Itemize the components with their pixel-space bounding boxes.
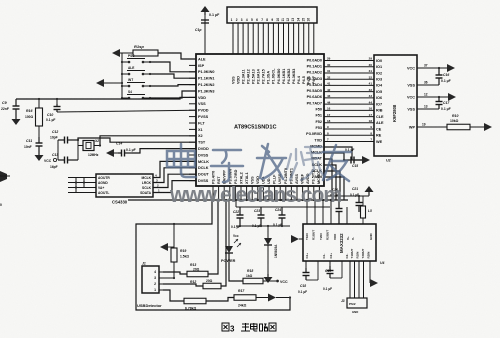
resistor R14 6.78k on J1 pin1 <box>163 290 184 301</box>
ground arrow left of R1sp <box>112 49 120 57</box>
ground below D1 <box>267 274 269 277</box>
capacitor C24 0.1uF <box>281 207 283 215</box>
connector J2 top header <box>227 7 317 23</box>
ground arrow right of C16 <box>447 64 455 72</box>
capacitor C22 0.1uF <box>239 207 241 215</box>
DAC U3 CS4330 <box>96 174 153 197</box>
ground arrow left rail <box>96 79 104 87</box>
wire top rail to U1 VDD <box>16 97 196 99</box>
resistor R13 20ohm on J1 pin4 <box>163 272 187 274</box>
capacitor C23 0.1uF <box>260 207 262 215</box>
key switch S4 <box>122 97 128 99</box>
wires U1 right lower pins wrap down <box>324 147 362 160</box>
resistor R12 20ohm on J1 pin2 <box>163 284 203 286</box>
capacitor C1p 0.1uF near connector <box>204 13 206 54</box>
capacitor C16 0.1uF <box>438 68 440 75</box>
capacitor C20 0.1uF <box>338 196 340 209</box>
left rail of key stack <box>121 53 123 98</box>
capacitor C18 0.1uF below U4 <box>305 261 307 268</box>
ground arrow right of R10 <box>484 123 492 131</box>
edge component fragment <box>0 171 7 182</box>
capacitor C17 0.1uF <box>438 97 440 102</box>
bus net below U1 <box>128 199 348 201</box>
connector J3 <box>347 298 367 308</box>
ground arrow left of R19 <box>160 243 168 251</box>
resistor R10 10k on WP pin19 <box>417 126 447 128</box>
crystal X2 12MHz <box>77 140 79 160</box>
LED D3 POWER indicator <box>228 200 230 246</box>
bus wires U1 to U2 <box>324 60 374 62</box>
key switch S2 <box>122 73 128 75</box>
ground arrow right of C15 <box>362 156 370 164</box>
wires keys to U1 P1.x pins <box>150 62 196 72</box>
rail above U4 <box>327 195 369 197</box>
wire U2 VCC pin37 <box>417 67 447 69</box>
wire J1 pin3 to R19 <box>163 277 174 279</box>
U1 bottom pin stubs <box>212 186 214 200</box>
key switch S3 <box>122 85 128 87</box>
ground arrow right of R17 <box>268 294 276 302</box>
caption figure 3 main circuit <box>222 323 229 331</box>
wires CS4330 right pins to U1 audio pins <box>153 161 196 177</box>
wire U2 VSS pin36 <box>417 84 439 86</box>
capacitor C21 0.1uF <box>358 196 360 203</box>
ground arrow above rail <box>365 186 374 192</box>
diode D1 1N5819A <box>267 226 269 238</box>
wire bus to USB section outline <box>136 200 290 310</box>
wires connector J2 to U1 top pins <box>232 23 234 54</box>
wire U2 VCC pin12 <box>417 96 448 98</box>
wire C10 to U1 PVDD <box>57 110 196 112</box>
transceiver U4 MAX3232 <box>303 224 376 261</box>
wire U2 VSS pin13 <box>417 108 439 110</box>
capacitor C15 0.1uF <box>349 159 352 161</box>
wires bus to U4 top pins <box>306 200 308 224</box>
arrow into U4 left <box>291 235 299 243</box>
wire R14 to R17 <box>206 298 234 302</box>
VCC node left of C13 <box>53 158 56 161</box>
ground below C11 <box>38 152 40 155</box>
wire LED to R18 <box>229 253 243 281</box>
second rail below bus <box>236 206 330 208</box>
flash memory U2 K9F2808 NAND <box>374 55 417 156</box>
rail joining caps <box>236 225 290 227</box>
key switch S1 <box>122 61 128 63</box>
ground arrow right of C17 <box>448 93 456 101</box>
wires CS4330 left pins <box>68 177 96 179</box>
inductor L5 <box>359 211 363 213</box>
connector J1 USB detector <box>142 266 159 293</box>
junction dots on bus <box>239 199 241 201</box>
microcontroller U1 AT89C51SND1C <box>196 54 324 186</box>
scan noise overlay <box>0 0 1 1</box>
ground below C9 <box>15 116 17 119</box>
watermark hanzi characters <box>167 144 286 182</box>
wires crystal to U1 X1 X2 <box>100 136 196 146</box>
wires U4 bottom pins to J3 <box>349 261 351 298</box>
wires U1 right pins down to bus <box>324 159 332 200</box>
capacitor C10 0.1uF <box>56 99 58 104</box>
VCC tap right of D1 <box>268 280 276 282</box>
wire R1sp to U1 ALE <box>158 53 196 59</box>
capacitor C19 0.1uF below U4 <box>329 261 331 266</box>
ground arrow below U4 GND <box>369 261 371 283</box>
resistor R19 1.5k <box>173 224 175 248</box>
